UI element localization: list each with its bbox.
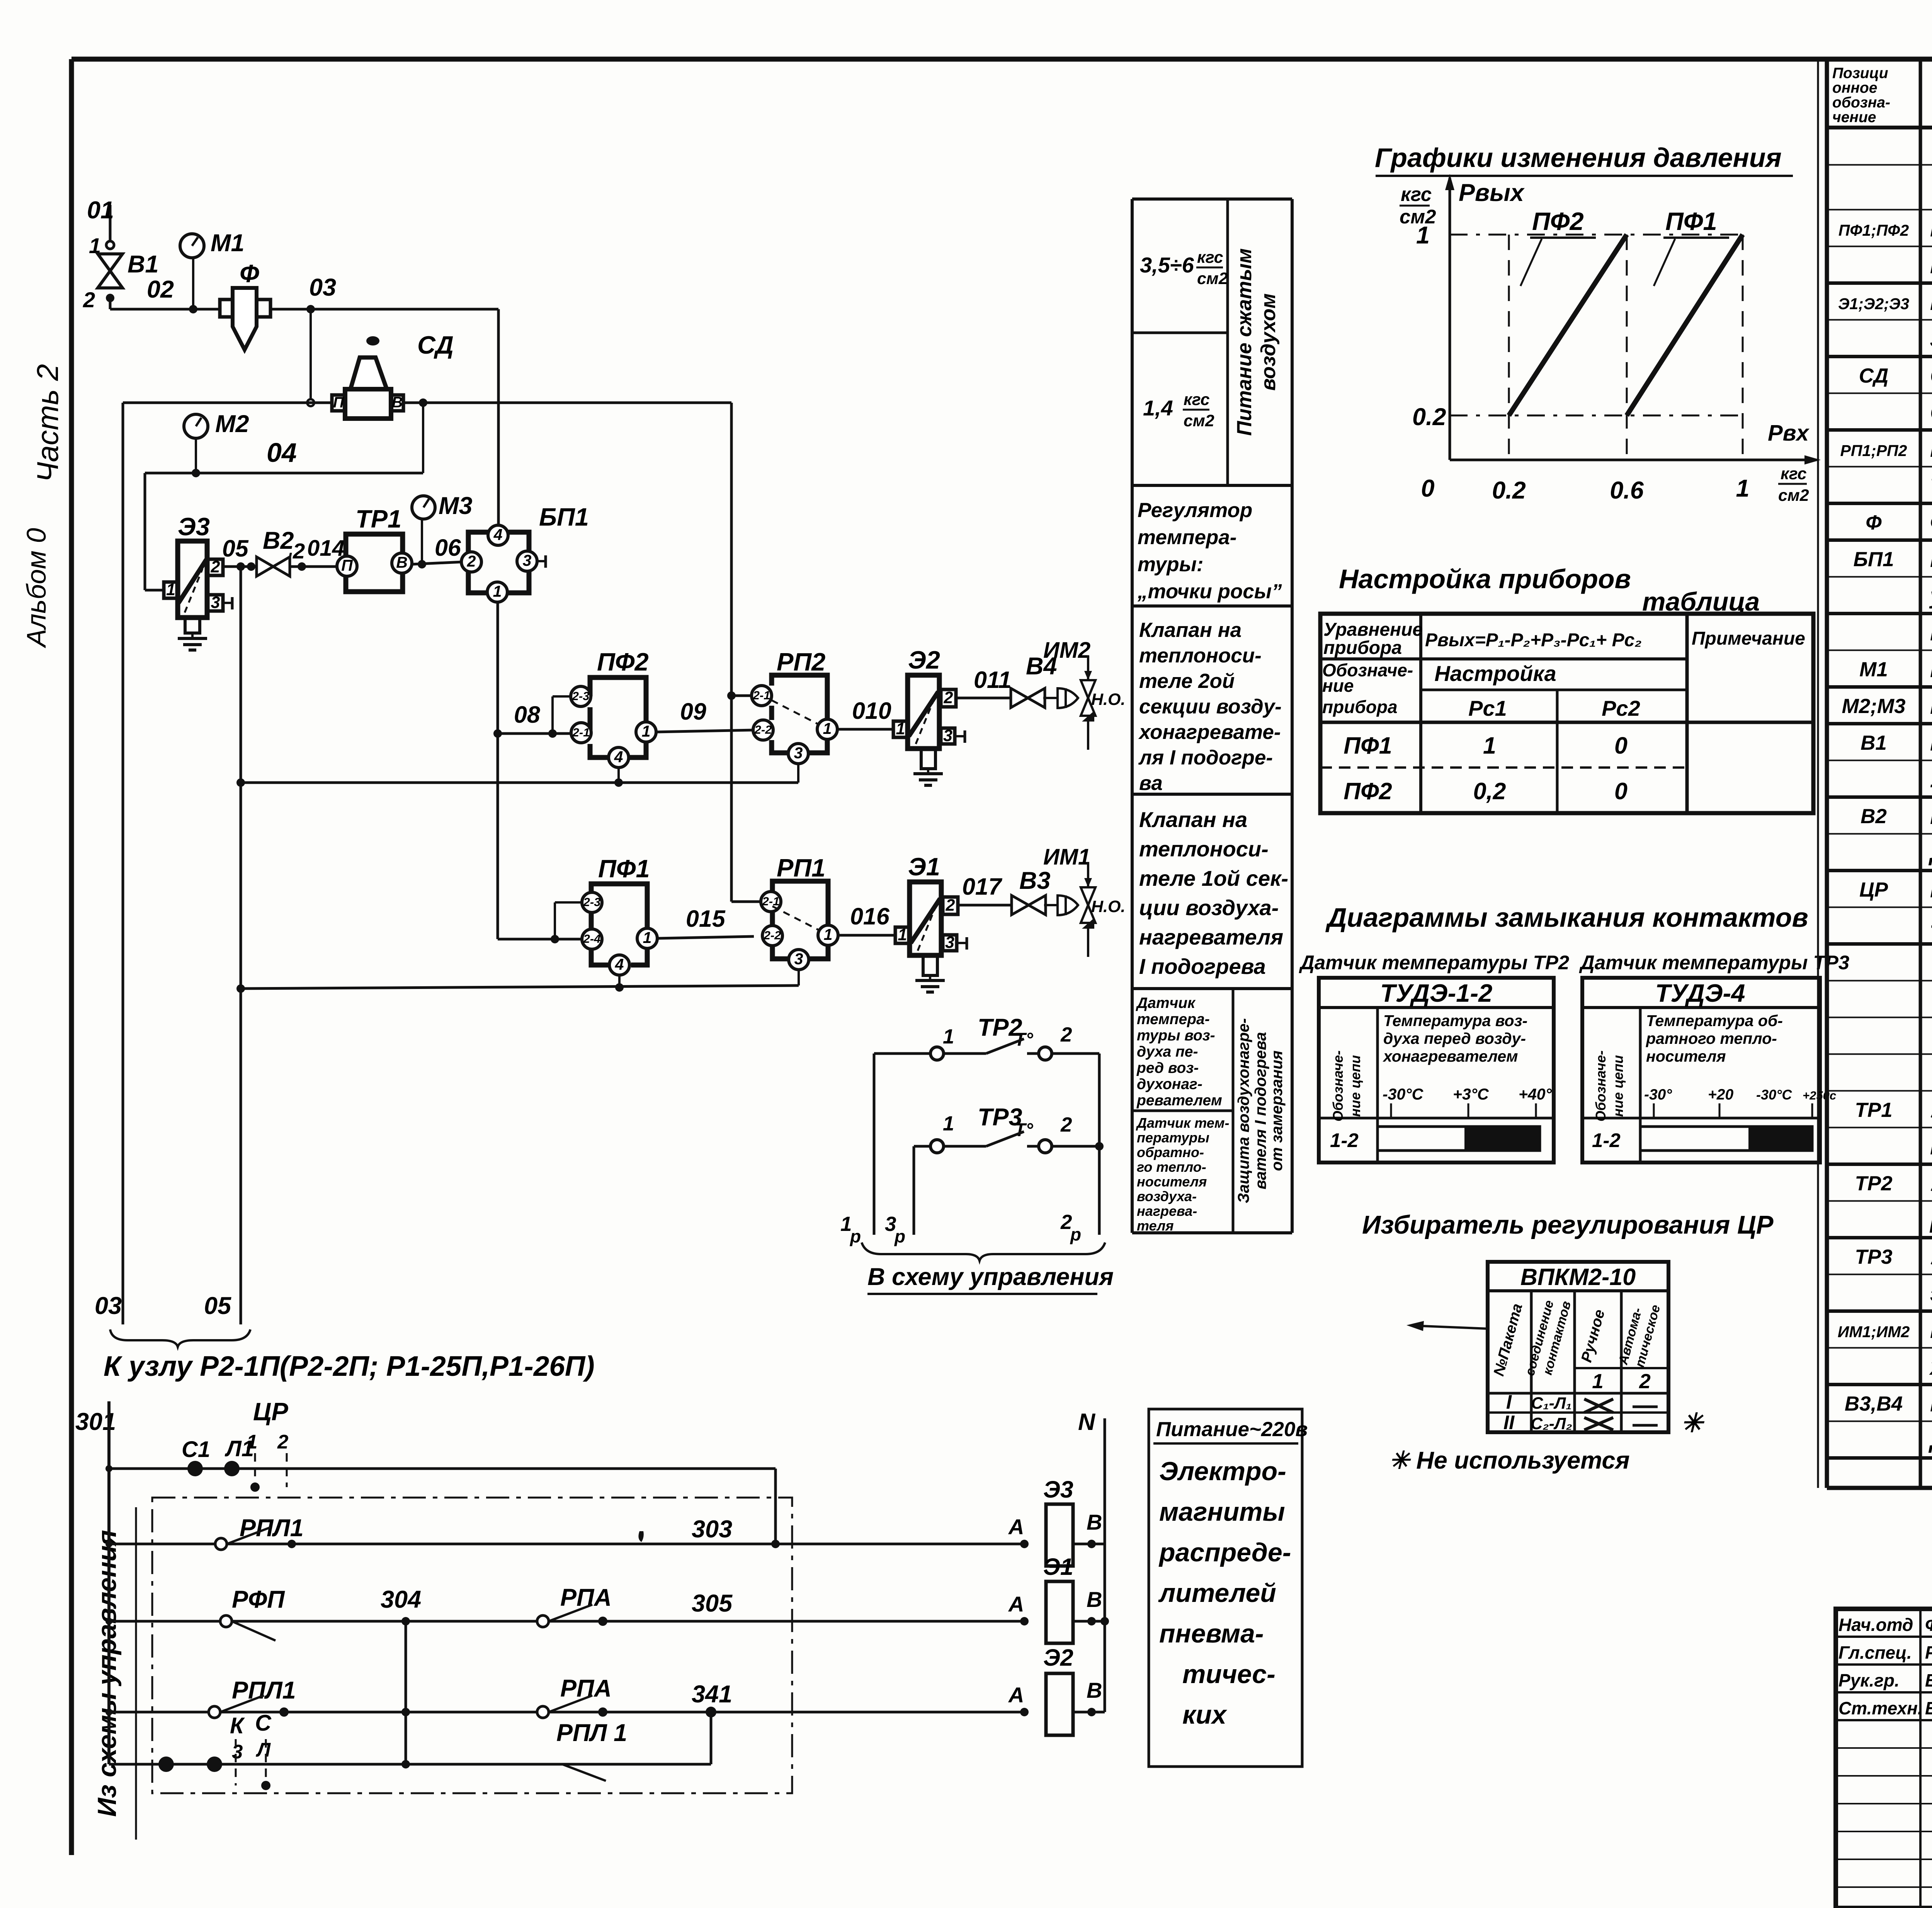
- svg-text:обратно-: обратно-: [1137, 1144, 1204, 1160]
- frame left border: [69, 59, 74, 1855]
- node 1 open circle: [106, 241, 114, 249]
- svg-text:05: 05: [204, 1292, 231, 1319]
- svg-text:Устройство терморегулирующее э: Устройство терморегулирующее элект-: [1930, 1171, 1932, 1196]
- svg-text:ТУ25 - 03-1369- 72: ТУ25 - 03-1369- 72: [1930, 473, 1932, 499]
- fuse Л1: [224, 1461, 240, 1476]
- svg-text:В2: В2: [263, 527, 294, 554]
- svg-text:Рвх: Рвх: [1768, 420, 1810, 446]
- svg-text:ТР3: ТР3: [1855, 1246, 1892, 1268]
- svg-text:2-4: 2-4: [583, 932, 601, 945]
- svg-text:К: К: [230, 1713, 245, 1738]
- svg-text:электрическое ТУДЭ-4 ТУ25-02 1: электрическое ТУДЭ-4 ТУ25-02 1074-75: [1930, 1281, 1932, 1306]
- svg-text:Рубчинский: Рубчинский: [1925, 1642, 1932, 1663]
- svg-text:Настройка: Настройка: [1434, 661, 1556, 686]
- svg-text:вателя I подогрева: вателя I подогрева: [1252, 1032, 1269, 1189]
- wire СД feed: [123, 402, 332, 404]
- svg-text:ва: ва: [1139, 772, 1163, 795]
- curve ПФ2: [1509, 235, 1627, 415]
- svg-text:3: 3: [794, 744, 803, 762]
- svg-text:Pс2: Pс2: [1602, 696, 1640, 720]
- svg-text:+20: +20: [1708, 1086, 1733, 1103]
- dash level 1: [1450, 234, 1743, 236]
- svg-text:+40°: +40°: [1519, 1085, 1552, 1103]
- svg-text:РП1;РП2: РП1;РП2: [1840, 442, 1907, 460]
- svg-text:04: 04: [267, 437, 297, 468]
- svg-text:Уравнение: Уравнение: [1323, 620, 1423, 640]
- svg-text:ние цепи: ние цепи: [1610, 1055, 1626, 1117]
- svg-text:В1: В1: [1861, 732, 1887, 754]
- svg-text:В: В: [1087, 1510, 1102, 1534]
- svg-text:Н.О.: Н.О.: [1091, 897, 1125, 916]
- svg-text:2: 2: [467, 552, 476, 570]
- valve В3: [1012, 895, 1046, 915]
- svg-text:2: 2: [1060, 1023, 1072, 1046]
- svg-text:Рвых: Рвых: [1459, 179, 1525, 206]
- svg-text:ких: ких: [1182, 1700, 1228, 1729]
- svg-text:темпера-: темпера-: [1138, 526, 1236, 549]
- svg-text:прибора: прибора: [1323, 638, 1402, 658]
- middle column blocks: [1132, 197, 1292, 201]
- svg-text:В: В: [1087, 1678, 1102, 1702]
- svg-text:Избиратель регулирования ЦР: Избиратель регулирования ЦР: [1362, 1210, 1774, 1239]
- svg-text:Нач.отд: Нач.отд: [1838, 1615, 1913, 1635]
- svg-text:теля: теля: [1137, 1218, 1174, 1234]
- svg-text:2-1: 2-1: [762, 894, 780, 908]
- svg-text:рическое ТУДЭ-1-2 ТУ25-02.107: рическое ТУДЭ-1-2 ТУ25-02.1074-75: [1929, 1207, 1932, 1233]
- svg-text:ля I подогре-: ля I подогре-: [1138, 746, 1273, 769]
- svg-text:09: 09: [680, 698, 706, 725]
- svg-text:ПФ1: ПФ1: [598, 854, 650, 883]
- svg-text:р: р: [1070, 1224, 1081, 1244]
- svg-text:Обозначе-: Обозначе-: [1330, 1050, 1346, 1122]
- svg-text:М1: М1: [211, 230, 245, 257]
- svg-text:2: 2: [211, 558, 220, 576]
- svg-text:Бранштейн: Бранштейн: [1925, 1670, 1932, 1690]
- graph y-axis: [1449, 178, 1451, 460]
- svg-text:Позици: Позици: [1832, 65, 1888, 82]
- svg-text:Ф: Ф: [240, 259, 259, 288]
- text box Питание ~220в: [1149, 1409, 1302, 1767]
- svg-text:от замерзания: от замерзания: [1268, 1050, 1286, 1171]
- svg-text:304: 304: [381, 1586, 421, 1613]
- svg-text:II: II: [1503, 1411, 1515, 1433]
- svg-text:носителя: носителя: [1137, 1174, 1207, 1190]
- svg-text:03: 03: [95, 1292, 122, 1319]
- svg-text:темпера-: темпера-: [1137, 1011, 1210, 1028]
- svg-text:П: П: [333, 394, 344, 411]
- node 03 junction: [306, 305, 315, 313]
- svg-text:духа перед возду-: духа перед возду-: [1383, 1030, 1526, 1047]
- title block signature rows: [1836, 1636, 1932, 1638]
- svg-text:ИМ1;ИМ2: ИМ1;ИМ2: [1838, 1323, 1910, 1341]
- svg-text:магниты: магниты: [1159, 1497, 1285, 1527]
- svg-text:1,4: 1,4: [1143, 396, 1173, 420]
- svg-text:ЦР: ЦР: [253, 1397, 288, 1426]
- svg-text:0: 0: [1614, 732, 1628, 759]
- svg-text:теплоноси-: теплоноси-: [1139, 644, 1262, 667]
- svg-text:теле 2ой: теле 2ой: [1139, 670, 1235, 693]
- svg-text:Клапан на: Клапан на: [1139, 807, 1247, 832]
- wire 03: [270, 308, 498, 311]
- wire 06: [412, 562, 462, 564]
- svg-text:303: 303: [692, 1516, 732, 1543]
- svg-text:1: 1: [943, 1112, 954, 1135]
- wire 04 drop: [422, 403, 424, 473]
- wire 08: [498, 732, 572, 735]
- svg-text:ИМ2: ИМ2: [1043, 638, 1090, 663]
- wire 04: [145, 472, 423, 475]
- svg-text:+3°С: +3°С: [1453, 1085, 1489, 1103]
- svg-text:2-2: 2-2: [754, 723, 772, 736]
- svg-text:341: 341: [692, 1681, 732, 1708]
- svg-text:С: С: [255, 1711, 272, 1736]
- rung 4 (КС РПЛ1): [109, 1763, 711, 1766]
- svg-text:го тепло-: го тепло-: [1137, 1159, 1206, 1175]
- manometer М3: [412, 496, 435, 519]
- svg-text:1-2: 1-2: [1330, 1129, 1359, 1151]
- svg-text:2: 2: [1060, 1113, 1072, 1136]
- svg-text:СД: СД: [1859, 364, 1889, 387]
- svg-text:Регулятор: Регулятор: [1138, 499, 1252, 522]
- svg-text:В1: В1: [128, 251, 159, 278]
- svg-text:ПФ1: ПФ1: [1344, 732, 1392, 759]
- svg-text:Pвых=P₁-P₂+P₃-Pс₁+ Pс₂: Pвых=P₁-P₂+P₃-Pс₁+ Pс₂: [1425, 630, 1642, 650]
- rung 305: [109, 1620, 1024, 1623]
- svg-text:СД: СД: [417, 331, 454, 359]
- svg-text:3: 3: [943, 726, 952, 745]
- svg-text:4: 4: [493, 526, 503, 543]
- svg-text:обозна-: обозна-: [1832, 94, 1890, 111]
- brace В схему управления: [862, 1242, 1105, 1261]
- svg-text:тичес-: тичес-: [1182, 1660, 1276, 1689]
- svg-text:прибора: прибора: [1322, 697, 1398, 717]
- svg-text:Электро-: Электро-: [1159, 1457, 1286, 1486]
- svg-text:ревателем: ревателем: [1136, 1092, 1222, 1109]
- wire 04 to Э3 port1: [144, 473, 146, 590]
- dash-dot cabinet box: [152, 1498, 792, 1793]
- svg-text:РП2: РП2: [777, 648, 825, 676]
- svg-text:Э3: Э3: [1043, 1476, 1073, 1503]
- table Настройка: [1320, 614, 1813, 813]
- svg-text:нагрева-: нагрева-: [1137, 1203, 1197, 1219]
- svg-text:017: 017: [962, 873, 1003, 900]
- valve В2: [257, 557, 290, 576]
- svg-text:1-2: 1-2: [1592, 1129, 1621, 1151]
- svg-text:онное: онное: [1832, 80, 1877, 96]
- svg-text:Настройка приборов: Настройка приборов: [1339, 564, 1631, 594]
- wire to РП1 2-1: [731, 900, 761, 903]
- svg-text:А: А: [1008, 1592, 1024, 1616]
- svg-text:Мембранный исполнительный ме-: Мембранный исполнительный ме-: [1930, 1317, 1932, 1343]
- svg-text:Вентиль диафрагмовый ВПД-4,: Вентиль диафрагмовый ВПД-4,: [1930, 803, 1932, 829]
- svg-text:пневма-: пневма-: [1159, 1619, 1264, 1648]
- svg-text:Шкала 0÷10кгс/см²: Шкала 0÷10кгс/см²: [1930, 657, 1932, 682]
- svg-text:П: П: [341, 557, 353, 574]
- svg-text:Температура об-: Температура об-: [1646, 1012, 1783, 1030]
- svg-text:лителей: лителей: [1158, 1578, 1276, 1608]
- svg-text:В: В: [1087, 1587, 1102, 1612]
- М1 stem wire: [192, 258, 194, 309]
- dashed verticals: [1508, 235, 1510, 460]
- svg-text:Л1: Л1: [224, 1436, 254, 1461]
- svg-text:Э1;Э2;Э3: Э1;Э2;Э3: [1838, 295, 1909, 313]
- svg-text:туры:: туры:: [1138, 553, 1204, 576]
- svg-text:1: 1: [1416, 222, 1430, 249]
- svg-text:кгс: кгс: [1197, 248, 1223, 267]
- svg-text:Фильтр воздуха Ф86-02 ТУ25-02.: Фильтр воздуха Ф86-02 ТУ25-02.280666-76: [1930, 510, 1932, 535]
- svg-text:Прибор алгебраического суммиро: Прибор алгебраического суммирова-: [1930, 216, 1932, 242]
- svg-text:010: 010: [852, 698, 891, 724]
- svg-text:ТР2: ТР2: [1855, 1172, 1892, 1195]
- rung C1 Л1: [109, 1467, 776, 1470]
- svg-text:р: р: [849, 1226, 861, 1246]
- svg-text:2: 2: [1639, 1370, 1650, 1393]
- svg-text:ние цепи: ние цепи: [1347, 1055, 1363, 1117]
- svg-text:теплоноси-: теплоноси-: [1139, 837, 1269, 861]
- svg-text:305: 305: [692, 1590, 733, 1617]
- wire 03 rail V2: [122, 403, 124, 1324]
- wire 010: [837, 728, 893, 731]
- svg-text:ПФ1;ПФ2: ПФ1;ПФ2: [1838, 221, 1909, 239]
- svg-text:✳ Не используется: ✳ Не используется: [1389, 1447, 1630, 1474]
- svg-text:Т°: Т°: [1014, 1120, 1033, 1140]
- svg-text:0,2: 0,2: [1473, 778, 1506, 804]
- svg-text:Диаграммы замыкания контактов: Диаграммы замыкания контактов: [1325, 902, 1808, 933]
- svg-text:В: В: [392, 394, 403, 411]
- svg-text:см2: см2: [1778, 486, 1809, 505]
- svg-text:БП1: БП1: [539, 503, 589, 531]
- svg-text:духонаг-: духонаг-: [1137, 1076, 1202, 1093]
- svg-text:кгс: кгс: [1401, 183, 1432, 205]
- svg-text:3,5÷6: 3,5÷6: [1140, 253, 1194, 277]
- wire ПФ1 feed: [498, 938, 583, 941]
- svg-text:Датчик: Датчик: [1136, 995, 1196, 1011]
- rung1 drop: [774, 1469, 777, 1544]
- ПФ1 tap to 2-3: [554, 902, 556, 939]
- svg-text:-30°С: -30°С: [1383, 1085, 1424, 1103]
- svg-text:пературы: пературы: [1137, 1130, 1209, 1145]
- wire 011: [956, 697, 1012, 700]
- svg-text:ПФ1: ПФ1: [1665, 207, 1717, 235]
- svg-text:носителя: носителя: [1646, 1047, 1726, 1065]
- wire 03 drop to СД: [310, 309, 312, 403]
- curve ПФ1: [1627, 235, 1743, 415]
- svg-text:ПФ2: ПФ2: [1344, 778, 1392, 804]
- svg-text:011: 011: [974, 667, 1011, 693]
- svg-text:хонагревателем: хонагревателем: [1383, 1047, 1518, 1065]
- node 2 junction: [106, 294, 114, 302]
- svg-text:1: 1: [493, 582, 502, 600]
- wire СД output: [403, 402, 731, 404]
- svg-text:К узлу Р2-1П(Р2-2П; Р1-25П,Р1-: К узлу Р2-1П(Р2-2П; Р1-25П,Р1-26П): [104, 1351, 595, 1382]
- svg-text:см2: см2: [1197, 269, 1228, 288]
- svg-text:Вентиль диафрагмовый ВПД-4,: Вентиль диафрагмовый ВПД-4,: [1930, 1391, 1932, 1416]
- svg-text:~ 220В, 10А ОСТ 16. 0,526.: ~ 220В, 10А ОСТ 16. 0,526. 001-77: [1930, 914, 1932, 939]
- wire 1р vertical: [873, 1054, 876, 1235]
- svg-text:РПЛ1: РПЛ1: [232, 1677, 296, 1704]
- svg-text:ТР1: ТР1: [355, 505, 401, 533]
- svg-text:М2;М3: М2;М3: [1842, 695, 1906, 718]
- wire РП1-3 row: [241, 985, 799, 989]
- svg-text:Устройство терморегулирующее п: Устройство терморегулирующее пневма-: [1930, 1097, 1932, 1123]
- wire 015: [657, 936, 754, 938]
- svg-text:Э3: Э3: [178, 512, 210, 541]
- svg-text:Датчик температуры ТР3: Датчик температуры ТР3: [1579, 951, 1849, 974]
- svg-text:ПФ2: ПФ2: [597, 648, 649, 676]
- svg-text:Ерина: Ерина: [1925, 1698, 1932, 1718]
- parts table frame: [1817, 59, 1819, 1488]
- svg-text:секции возду-: секции возду-: [1139, 695, 1282, 718]
- svg-text:Датчик температуры ТР2: Датчик температуры ТР2: [1299, 951, 1569, 974]
- svg-text:М2: М2: [215, 410, 249, 437]
- svg-text:015: 015: [686, 905, 726, 932]
- svg-text:В2: В2: [1861, 805, 1887, 828]
- svg-text:Рук.гр.: Рук.гр.: [1838, 1670, 1900, 1690]
- svg-text:08: 08: [514, 701, 540, 728]
- svg-text:Байпасная панель дистанционног: Байпасная панель дистанционного: [1930, 546, 1932, 572]
- wire БП1-4 up to 03: [497, 309, 500, 526]
- svg-text:0.6: 0.6: [1610, 477, 1644, 504]
- svg-text:ТР1: ТР1: [1855, 1099, 1892, 1122]
- manometer М2: [184, 414, 208, 438]
- svg-text:15Б 3рк; Ду15 ГОСТ 9086-74: 15Б 3рк; Ду15 ГОСТ 9086-74: [1930, 767, 1932, 792]
- valve В4: [1011, 688, 1045, 708]
- svg-text:Температура воз-: Температура воз-: [1383, 1012, 1527, 1030]
- svg-text:03: 03: [309, 274, 336, 301]
- svg-text:туры воз-: туры воз-: [1137, 1027, 1215, 1044]
- wire 02: [109, 298, 112, 309]
- wire 2р vertical: [1098, 1054, 1101, 1235]
- brace К узлу: [110, 1329, 250, 1347]
- svg-text:Из схемы управления: Из схемы управления: [92, 1530, 122, 1817]
- svg-text:М3: М3: [439, 492, 473, 519]
- svg-text:Стабилизатор давления воздуха: Стабилизатор давления воздуха: [1930, 363, 1932, 388]
- svg-text:Защита воздухонагре-: Защита воздухонагре-: [1235, 1018, 1252, 1203]
- graph x-axis: [1450, 459, 1816, 461]
- svg-text:-30°: -30°: [1644, 1086, 1672, 1103]
- svg-text:духа пе-: духа пе-: [1137, 1043, 1198, 1060]
- svg-text:теле 1ой сек-: теле 1ой сек-: [1139, 866, 1288, 890]
- svg-text:Распределитель пневматический: Распределитель пневматический: [1930, 289, 1932, 315]
- wire 05: [223, 565, 339, 568]
- svg-text:1: 1: [643, 929, 652, 946]
- svg-text:ВПКМ2-10: ВПКМ2-10: [1520, 1264, 1636, 1290]
- svg-text:2: 2: [944, 688, 953, 707]
- svg-text:Обозначе-: Обозначе-: [1593, 1050, 1609, 1122]
- svg-text:1: 1: [823, 720, 832, 737]
- svg-text:Манометры МТ-2 ТУ25-02.72-75.: Манометры МТ-2 ТУ25-02.72-75.: [1930, 620, 1932, 645]
- svg-text:В3: В3: [1019, 867, 1051, 894]
- dash level 0.2: [1450, 415, 1743, 417]
- svg-text:1: 1: [896, 720, 905, 738]
- svg-text:воздуха-: воздуха-: [1137, 1188, 1197, 1204]
- svg-text:В схему управления: В схему управления: [867, 1263, 1114, 1290]
- svg-text:Альбом 0: Альбом 0: [21, 528, 51, 648]
- parts table header: [1827, 126, 1932, 129]
- svg-text:Шкала 0÷2,5кгс/см²: Шкала 0÷2,5кгс/см²: [1930, 693, 1932, 719]
- wire 09: [656, 730, 754, 732]
- svg-text:1: 1: [824, 926, 833, 943]
- svg-text:В: В: [396, 553, 408, 571]
- svg-text:1: 1: [898, 926, 907, 944]
- svg-text:Графики изменения давления: Графики изменения давления: [1375, 143, 1782, 173]
- wire 017: [958, 904, 1012, 907]
- svg-text:2: 2: [293, 539, 305, 563]
- svg-text:2: 2: [83, 288, 95, 312]
- svg-text:2-3: 2-3: [572, 689, 590, 703]
- svg-text:А: А: [1008, 1515, 1024, 1539]
- wire 016: [838, 934, 895, 937]
- svg-text:р: р: [894, 1226, 905, 1246]
- svg-text:0: 0: [1421, 475, 1434, 502]
- svg-text:Pс1: Pс1: [1468, 696, 1507, 720]
- svg-text:05: 05: [222, 535, 249, 562]
- svg-text:Гл.спец.: Гл.спец.: [1838, 1642, 1912, 1663]
- svg-text:ИМ1: ИМ1: [1043, 844, 1090, 870]
- svg-text:N: N: [1078, 1409, 1096, 1435]
- svg-text:Ст.техн.: Ст.техн.: [1838, 1698, 1923, 1718]
- svg-text:Часть 2: Часть 2: [31, 364, 65, 482]
- svg-text:воздухом: воздухом: [1257, 293, 1280, 391]
- svg-text:0: 0: [1614, 778, 1628, 804]
- svg-text:А: А: [1008, 1683, 1024, 1707]
- svg-text:Э2: Э2: [1043, 1644, 1073, 1671]
- svg-text:Э2: Э2: [908, 646, 940, 674]
- svg-text:нагревателя: нагревателя: [1139, 925, 1283, 949]
- rail 05 vertical: [240, 567, 242, 1324]
- svg-text:чение: чение: [1832, 109, 1876, 126]
- selector table: [1488, 1262, 1668, 1432]
- svg-text:3: 3: [794, 950, 803, 968]
- svg-text:0.2: 0.2: [1412, 403, 1446, 431]
- svg-text:В3,В4: В3,В4: [1845, 1392, 1903, 1415]
- svg-text:хонагревате-: хонагревате-: [1138, 721, 1281, 744]
- ground Э3: [191, 633, 194, 638]
- svg-text:Клапан на: Клапан на: [1139, 619, 1242, 642]
- svg-text:014: 014: [307, 536, 345, 561]
- svg-text:Датчик тем-: Датчик тем-: [1136, 1115, 1229, 1131]
- svg-text:тическое ТУДП-М-1 ТУ25-02.1297: тическое ТУДП-М-1 ТУ25-02.1297-74: [1930, 1134, 1932, 1159]
- svg-text:Э1: Э1: [908, 853, 940, 881]
- svg-text:1: 1: [1483, 732, 1496, 759]
- svg-text:Пакетный выключатель ВПКМ2-10: Пакетный выключатель ВПКМ2-10: [1930, 877, 1932, 902]
- 304 vertical: [405, 1621, 407, 1764]
- svg-text:Реле переключения ПП 2.5: Реле переключения ПП 2.5: [1930, 436, 1932, 462]
- svg-text:Питание сжатым: Питание сжатым: [1233, 248, 1256, 436]
- svg-text:2: 2: [277, 1431, 288, 1453]
- wire 3р vertical: [913, 1146, 915, 1235]
- rung 341: [109, 1711, 1024, 1714]
- node 01 line: [109, 205, 112, 245]
- svg-text:1: 1: [166, 580, 175, 599]
- svg-text:4: 4: [614, 748, 623, 766]
- frame top border: [71, 57, 1932, 62]
- svg-text:„точки росы”: „точки росы”: [1137, 580, 1282, 603]
- fuse С1: [187, 1461, 203, 1476]
- svg-text:ТУДЭ-4: ТУДЭ-4: [1655, 979, 1745, 1007]
- svg-text:РФП: РФП: [232, 1586, 285, 1613]
- svg-text:РП1: РП1: [777, 854, 825, 882]
- svg-text:СДВ 6 · ТУ25-02. 280656-76: СДВ 6 · ТУ25-02. 280656-76: [1930, 400, 1932, 425]
- svg-text:М1: М1: [1859, 658, 1888, 681]
- wire БП1-1 down (V3): [497, 602, 499, 939]
- svg-text:1: 1: [943, 1025, 954, 1048]
- svg-text:1: 1: [1736, 475, 1749, 502]
- svg-text:4: 4: [615, 955, 624, 973]
- svg-text:ции воздуха-: ции воздуха-: [1139, 895, 1279, 920]
- svg-text:С₂-Л₂: С₂-Л₂: [1531, 1414, 1572, 1433]
- wire СД-net to РП2 2-1: [730, 403, 733, 902]
